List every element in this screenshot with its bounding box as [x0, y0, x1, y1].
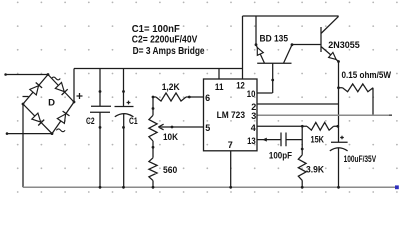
svg-text:D: D — [48, 98, 55, 109]
svg-text:4: 4 — [251, 123, 256, 133]
svg-text:C2= 2200uF/40V: C2= 2200uF/40V — [132, 35, 198, 46]
svg-text:100uF/35V: 100uF/35V — [344, 154, 377, 164]
svg-text:100pF: 100pF — [269, 150, 293, 160]
svg-text:13: 13 — [247, 136, 256, 146]
svg-text:10K: 10K — [163, 132, 178, 142]
svg-text:C1= 100nF: C1= 100nF — [132, 24, 180, 35]
svg-text:3: 3 — [251, 111, 256, 121]
svg-text:12: 12 — [236, 80, 245, 90]
svg-text:7: 7 — [228, 140, 233, 150]
svg-text:10: 10 — [247, 89, 256, 99]
svg-text:3.9K: 3.9K — [306, 164, 324, 174]
svg-text:1,2K: 1,2K — [162, 82, 180, 92]
svg-text:5: 5 — [205, 123, 210, 133]
svg-text:0.15 ohm/5W: 0.15 ohm/5W — [342, 70, 392, 81]
svg-text:11: 11 — [215, 82, 224, 92]
svg-text:D= 3 Amps Bridge: D= 3 Amps Bridge — [133, 46, 205, 57]
svg-text:2N3055: 2N3055 — [328, 40, 360, 51]
svg-text:560: 560 — [163, 165, 177, 175]
svg-text:C2: C2 — [86, 116, 95, 126]
svg-text:LM 723: LM 723 — [217, 110, 245, 121]
svg-text:6: 6 — [205, 93, 210, 103]
svg-text:C1: C1 — [129, 116, 138, 126]
svg-text:BD 135: BD 135 — [260, 34, 289, 45]
svg-text:15K: 15K — [311, 134, 325, 144]
